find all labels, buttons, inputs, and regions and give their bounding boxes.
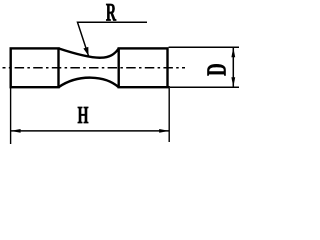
- leader line for R: [78, 22, 148, 56]
- svg-text:H: H: [78, 102, 89, 129]
- neck top arc (radius R): [59, 48, 119, 57]
- neck bottom arc (radius R): [59, 78, 119, 88]
- svg-text:R: R: [106, 0, 117, 27]
- svg-text:D: D: [202, 63, 232, 75]
- D extension line top: [169, 46, 239, 48]
- specimen left grip section: [11, 48, 59, 87]
- D extension line bottom: [170, 86, 239, 88]
- specimen right grip section: [119, 48, 168, 87]
- H extension line left: [10, 88, 12, 144]
- leader arrowhead: [83, 47, 88, 56]
- H right arrowhead: [159, 129, 169, 133]
- H extension line right: [168, 86, 170, 142]
- D bottom arrowhead: [231, 77, 235, 87]
- H dimension line: [11, 130, 170, 132]
- centerline (dash-dot axis): [3, 67, 186, 69]
- D top arrowhead: [231, 47, 235, 57]
- H left arrowhead: [11, 129, 21, 133]
- D dimension line: [232, 47, 234, 87]
